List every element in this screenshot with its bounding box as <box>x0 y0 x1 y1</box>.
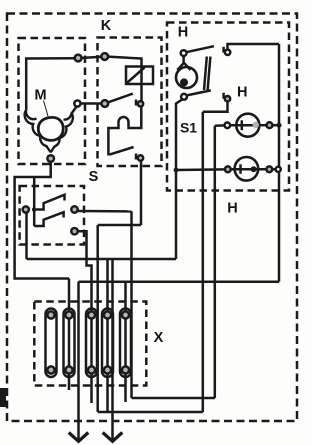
wire S1 lamp bottom down <box>176 99 183 259</box>
lamp H1 right stubs <box>259 124 267 127</box>
arrow2 head <box>103 433 123 442</box>
switch S1 pole1 fixed tick <box>222 47 225 53</box>
arrow2 shaft <box>111 259 114 440</box>
wire long horizontal y259 <box>27 258 177 261</box>
terminal S left <box>23 206 29 212</box>
wire pole2 contact path <box>203 101 228 111</box>
terminal K top <box>101 53 108 60</box>
terminal S1 lamp bottom <box>181 94 187 100</box>
terminal M top <box>75 55 82 62</box>
wire X4 drop <box>106 259 109 412</box>
wire K contact down <box>140 161 143 225</box>
wire branch to S box <box>33 177 36 208</box>
contact K arm bottom <box>110 147 134 155</box>
terminal lamp1 left <box>225 123 231 129</box>
arrow1 head <box>69 433 89 442</box>
wire right bus vertical <box>278 44 281 282</box>
terminal lamp1 right <box>267 122 273 128</box>
connector X5 <box>120 309 131 378</box>
wire X5 drop <box>124 282 127 402</box>
connector X3 <box>86 309 97 378</box>
relay coil K <box>126 67 153 85</box>
motor M winding hump top-right <box>64 113 72 120</box>
wire bottom horizontal H2 <box>98 411 203 414</box>
junction S dot <box>32 207 37 212</box>
wire top right horizontal <box>228 44 280 50</box>
lamp H top stub <box>182 56 185 64</box>
junction dot lamp1 bus <box>277 123 282 128</box>
wire M mid to motor <box>72 106 77 113</box>
contact K fixed tick mid <box>135 100 138 106</box>
terminal M mid <box>74 100 80 106</box>
junction dot S1 lamp2 <box>174 168 179 173</box>
lamp H2 circle <box>235 157 259 181</box>
box S dashed <box>20 186 84 245</box>
wire coil bottom <box>140 67 143 102</box>
wire S top terminal to jog <box>78 210 132 213</box>
wire lamp2 branch <box>176 168 225 171</box>
terminal lamp2 bus circle <box>276 167 281 172</box>
box X dashed <box>34 302 146 386</box>
contact K fixed tick bottom <box>135 154 138 160</box>
border blob artifact <box>0 388 6 407</box>
contact K fixed bottom circle <box>138 155 143 160</box>
switch S1 pole1 arm <box>186 46 214 52</box>
contact K fixed mid circle <box>138 101 143 106</box>
terminal S1 pole1 pivot <box>181 50 187 56</box>
wire bottom horizontal H1 <box>132 397 215 400</box>
motor M winding garland left <box>25 110 51 153</box>
wire K jog with bump <box>108 107 141 156</box>
connector X1 <box>46 309 57 378</box>
switch S1 pole2 arm <box>187 90 211 95</box>
S1 linkage bars <box>204 57 207 91</box>
wire M top left <box>26 58 75 110</box>
contact K arm mid <box>108 94 133 103</box>
svg-text:K: K <box>101 18 112 34</box>
wire junction horizontal y225 <box>98 224 141 227</box>
wire M-K gap mid <box>81 102 102 105</box>
wire S bottom out <box>78 231 92 403</box>
svg-text:M: M <box>34 88 46 104</box>
box M dashed <box>19 38 86 164</box>
wire X2 drop <box>68 279 71 391</box>
label M pointer <box>44 101 49 119</box>
wire S left down <box>25 212 28 259</box>
wire lamp1 left stub <box>215 124 225 127</box>
terminal lamp2 left <box>225 166 231 172</box>
box H dashed <box>167 23 289 191</box>
svg-text:S: S <box>89 169 99 185</box>
lamp H2 internals <box>231 168 259 171</box>
lamp H circle <box>176 67 197 88</box>
svg-text:S1: S1 <box>180 120 197 136</box>
switch S1 pole2 fixed tick <box>222 93 225 99</box>
wire right vertical V2 <box>202 112 205 412</box>
motor M winding garland right <box>51 113 73 153</box>
wire right vertical V3 <box>214 126 217 398</box>
contact S1 pole2 fixed <box>225 96 230 101</box>
contact S1 pole1 fixed <box>225 50 230 55</box>
arrow1 shaft <box>77 282 80 440</box>
lamp H1 circle <box>236 114 259 137</box>
motor M winding hump top-left <box>26 110 36 119</box>
terminal S fixed1 <box>71 206 77 212</box>
lamp H dot <box>180 78 188 86</box>
motor M bottom wire <box>15 162 69 279</box>
wire bus bottom horizontal <box>79 281 280 284</box>
terminal lamp2 right <box>266 166 272 172</box>
switch S contact2 vertical <box>33 210 36 227</box>
lamp H2 right stubs <box>258 168 266 171</box>
connector X2 <box>64 309 75 378</box>
lamp H chevron <box>177 63 190 70</box>
wire B down to bottom <box>96 225 99 412</box>
wire K top to coil <box>108 57 142 67</box>
wire M-K gap top <box>81 57 102 58</box>
svg-text:H: H <box>237 85 247 101</box>
svg-text:H: H <box>178 25 188 41</box>
terminal S fixed2 <box>71 228 77 234</box>
switch S contact1 <box>36 195 64 210</box>
connector X4 <box>102 309 113 378</box>
svg-text:X: X <box>154 330 164 346</box>
motor M armature circle <box>38 117 63 140</box>
terminal K mid <box>101 100 108 107</box>
lamp H1 internals <box>230 124 259 127</box>
svg-text:H: H <box>227 201 237 217</box>
terminal M bottom <box>47 155 54 162</box>
switch S contact2 <box>34 212 63 226</box>
wire long vertical x131.5 <box>130 211 133 398</box>
box K dashed <box>98 38 162 167</box>
